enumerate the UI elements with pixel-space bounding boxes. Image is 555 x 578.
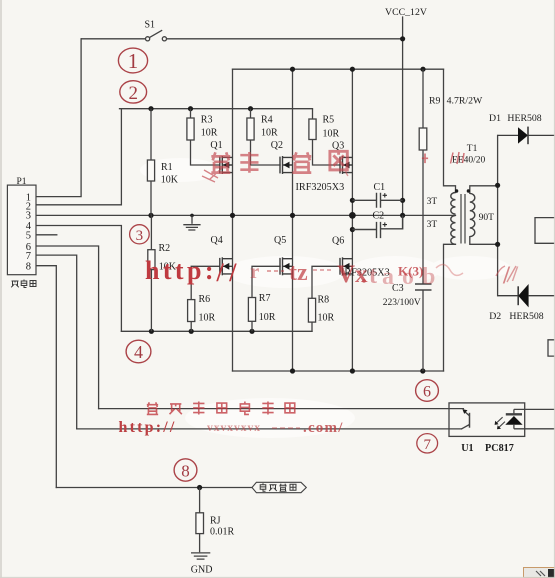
- svg-text:HER508: HER508: [507, 113, 541, 124]
- svg-text:0.01R: 0.01R: [210, 526, 235, 537]
- svg-text:C1: C1: [374, 182, 386, 193]
- svg-text:.com/: .com/: [303, 420, 344, 436]
- node marker circled 1: [118, 48, 147, 73]
- node Q6 source on bottom bus: [350, 368, 355, 373]
- wire R4 to Q2 gate: [251, 140, 281, 165]
- wire Q3/Q6 column: [351, 69, 353, 371]
- node R9 on bus: [420, 67, 425, 72]
- wire P1 pin2 to gate rail: [36, 109, 121, 205]
- svg-text:Q6: Q6: [332, 236, 344, 247]
- wire R7 to Q5 gate: [252, 266, 280, 297]
- capacitor C1: [352, 193, 402, 208]
- svg-text:D1: D1: [489, 113, 501, 124]
- node secondary top: [495, 183, 500, 188]
- svg-text:10R: 10R: [259, 312, 276, 323]
- svg-text:HER508: HER508: [509, 311, 543, 322]
- watermark red curves near D2: [496, 266, 516, 282]
- node R2 on lower gate line: [149, 329, 154, 334]
- wire R3 to Q1 gate: [191, 140, 220, 165]
- svg-text:R9: R9: [429, 96, 441, 107]
- wire Q1/Q4 column: [232, 69, 234, 371]
- resistor RJ 0.01R: [196, 488, 204, 553]
- node R4 on gate rail: [248, 106, 253, 111]
- svg-text:1: 1: [128, 49, 139, 73]
- svg-text:8: 8: [26, 261, 31, 272]
- wire R8 to Q6 gate: [312, 266, 340, 298]
- svg-text:S1: S1: [145, 20, 156, 31]
- node R7 on lower gate line: [249, 329, 254, 334]
- svg-text:Q1: Q1: [210, 140, 222, 151]
- transistor Q2: [280, 156, 293, 174]
- node ground stub on mid rail: [190, 214, 194, 218]
- wire opto input bottom: [77, 428, 462, 430]
- node Q5 source on bottom bus: [290, 368, 295, 373]
- svg-text:R5: R5: [323, 115, 335, 126]
- ground GND at RJ: [191, 553, 210, 559]
- node VCC center tap: [400, 213, 405, 218]
- svg-text:D2: D2: [489, 311, 501, 322]
- svg-text://: //: [216, 258, 242, 287]
- svg-text:2: 2: [128, 83, 138, 104]
- node marker circled 7: [417, 434, 438, 453]
- wire top gate rail: [120, 108, 313, 110]
- wire S1 to VCC node: [167, 38, 403, 40]
- svg-text:P1: P1: [17, 177, 27, 187]
- wire transformer primary top lead: [444, 69, 456, 192]
- watermark big http row: [145, 256, 519, 290]
- resistor R7 10R: [248, 298, 255, 332]
- watermark red strokes over EE40/20: [451, 152, 465, 164]
- node C3 on bottom bus: [420, 368, 425, 373]
- svg-text:VCC_12V: VCC_12V: [385, 7, 427, 18]
- svg-text:tz: tz: [289, 260, 308, 286]
- wire R8 bottom lead: [311, 322, 313, 331]
- node R6 on lower gate line: [189, 329, 194, 334]
- svg-text:vxvxvxvx: vxvxvxvx: [207, 422, 261, 434]
- svg-text:10K: 10K: [161, 175, 179, 186]
- node marker circled 6: [416, 380, 439, 402]
- svg-text:R3: R3: [201, 115, 213, 126]
- svg-text:4: 4: [134, 342, 143, 362]
- svg-text:5: 5: [26, 231, 31, 242]
- svg-text:10R: 10R: [318, 312, 335, 323]
- resistor R9 4.7R/2W: [419, 69, 427, 284]
- svg-text:90T: 90T: [479, 213, 495, 223]
- node C1 left: [350, 198, 355, 203]
- svg-text:R1: R1: [161, 162, 173, 173]
- node C1 right: [400, 198, 405, 203]
- connector P1: [7, 185, 36, 275]
- diode D1 HER508: [498, 127, 555, 145]
- node marker circled 3: [130, 225, 150, 244]
- wire P1 pin4 to lower gate line: [36, 226, 121, 332]
- wire VCC_12V vertical rail: [402, 17, 404, 229]
- node R3 on gate rail: [188, 106, 193, 111]
- svg-text:R8: R8: [318, 294, 330, 305]
- polarity + of C2: [383, 222, 387, 226]
- svg-text:4.7R/2W: 4.7R/2W: [447, 96, 483, 107]
- svg-text:Q4: Q4: [211, 235, 223, 246]
- wire rectifier vertical: [497, 135, 499, 295]
- wire Q2/Q5 column: [292, 69, 294, 371]
- svg-text:R7: R7: [259, 293, 271, 304]
- svg-text:8: 8: [181, 462, 190, 481]
- node marker circled 4: [126, 340, 151, 363]
- wire P1 pin8 to battery negative: [36, 266, 56, 488]
- resistor R6 10R: [188, 300, 195, 332]
- wire battery negative line: [56, 487, 252, 489]
- svg-text:R4: R4: [261, 115, 273, 126]
- node Q3 drain on bus: [350, 67, 355, 72]
- resistor R8 10R: [308, 298, 315, 322]
- switch S1: [81, 30, 166, 41]
- svg-text:Q2: Q2: [271, 140, 283, 151]
- wire top drain bus: [233, 68, 444, 70]
- svg-text:T1: T1: [467, 144, 478, 154]
- svg-text:r: r: [250, 259, 259, 283]
- wire P1 pin6 to opto top: [36, 246, 99, 409]
- resistor R3 10R: [187, 109, 194, 140]
- svg-text:10R: 10R: [323, 129, 340, 140]
- wire mid rail pin3 to transformer center tap: [36, 214, 456, 216]
- svg-text:3T: 3T: [427, 220, 438, 230]
- svg-text:10R: 10R: [199, 312, 216, 323]
- capacitor C3 223/100V: [415, 284, 432, 371]
- transistor Q1: [220, 156, 233, 174]
- svg-text:K(3): K(3): [398, 264, 423, 279]
- node S1/VCC junction: [400, 36, 405, 41]
- svg-text:10R: 10R: [261, 128, 278, 139]
- wire P1 pin5 stub: [36, 234, 57, 236]
- label 驱动板 (driver board): [11, 280, 36, 288]
- transistor Q5: [280, 257, 293, 275]
- svg-text:U1: U1: [461, 443, 473, 454]
- resistor R4 10R: [247, 109, 254, 140]
- transistor Q6: [340, 257, 352, 275]
- svg-text:R6: R6: [199, 294, 211, 305]
- capacitor C2: [352, 215, 402, 238]
- svg-text:7: 7: [423, 437, 431, 453]
- wire transformer secondary bottom lead: [470, 237, 498, 245]
- node Q2 source on mid rail: [290, 213, 295, 218]
- node R1 on mid rail: [148, 213, 153, 218]
- wire P1 pin7 to opto bottom: [36, 255, 77, 429]
- node marker circled 2: [120, 81, 147, 104]
- node Q3 source on mid rail: [349, 212, 356, 219]
- watermark red url row: [119, 419, 344, 436]
- svg-text:t: t: [369, 263, 377, 289]
- watermark red Chinese row: [147, 402, 295, 415]
- node marker circled 8: [174, 459, 197, 481]
- page edge lines: [0, 0, 2, 578]
- polarity + of C1: [383, 193, 387, 197]
- svg-text:3: 3: [136, 228, 144, 244]
- label 电池负极 (battery negative): [260, 483, 296, 491]
- wire bottom source bus: [233, 370, 444, 372]
- svg-text:RJ: RJ: [210, 515, 221, 526]
- svg-text:6: 6: [423, 384, 431, 401]
- op-amp U1 PC817 optocoupler: [449, 403, 555, 437]
- ground at mid rail: [183, 215, 200, 230]
- pin numbers P1 1-8: [26, 192, 32, 272]
- watermark red row over Q1-Q3: [202, 151, 428, 182]
- wire right bracket: [548, 340, 555, 356]
- wire P1 pin1 to S1: [36, 39, 81, 197]
- svg-text:223/100V: 223/100V: [383, 298, 421, 308]
- node Q1 source on mid rail: [230, 213, 235, 218]
- node Q2 drain on bus: [290, 67, 295, 72]
- node R1 on gate rail: [148, 106, 153, 111]
- wire R5 to Q3 gate: [313, 140, 341, 166]
- svg-text:http://: http://: [119, 419, 177, 436]
- resistor R2 10K: [148, 215, 155, 331]
- svg-text:3T: 3T: [427, 197, 438, 207]
- svg-text:Q5: Q5: [274, 235, 286, 246]
- svg-text:C2: C2: [373, 210, 385, 221]
- svg-text:IRF3205X3: IRF3205X3: [296, 182, 345, 193]
- transistor Q3: [340, 156, 352, 174]
- svg-text:10R: 10R: [201, 128, 218, 139]
- resistor R1 10K: [147, 109, 154, 216]
- svg-text:.: .: [361, 263, 367, 289]
- transistor Q4: [220, 257, 233, 275]
- resistor R5 10R: [309, 109, 316, 140]
- wire lower gate resistor line: [121, 330, 312, 332]
- node battery negative / RJ: [197, 485, 202, 490]
- svg-text:7: 7: [26, 251, 31, 262]
- wire transformer secondary top lead: [470, 186, 498, 194]
- diode D2 HER508: [498, 284, 555, 307]
- svg-text:PC817: PC817: [485, 443, 514, 454]
- transformer T1 EE40/20: [451, 189, 475, 244]
- corner watermark box: [524, 568, 555, 578]
- svg-text:R2: R2: [159, 243, 171, 254]
- node secondary bottom: [495, 242, 500, 247]
- wire transformer primary bottom lead: [444, 244, 456, 371]
- wire R6 to Q4 gate: [191, 266, 220, 299]
- node battery negative label: [252, 482, 306, 492]
- svg-text:http:: http:: [145, 256, 217, 285]
- wire opto input top: [99, 408, 464, 410]
- node C2 left: [350, 227, 355, 232]
- svg-text:GND: GND: [191, 564, 213, 575]
- wire right step: [535, 218, 555, 244]
